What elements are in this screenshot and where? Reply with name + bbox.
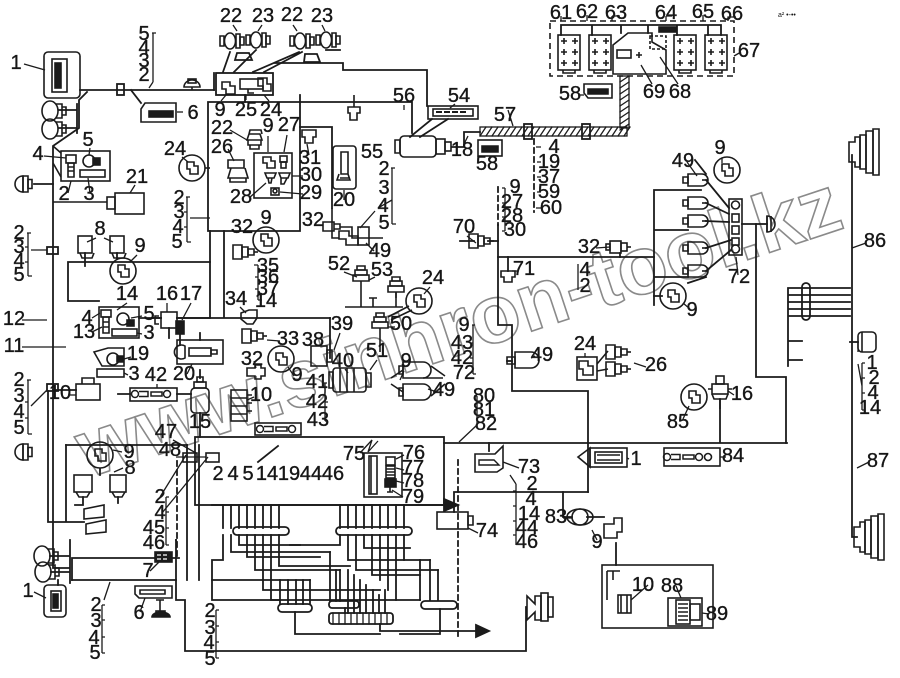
svg-text:2: 2 (579, 275, 590, 297)
fuse holder 84 (664, 448, 720, 466)
flag 7a (84, 505, 104, 519)
bracket 9-30 (502, 188, 505, 231)
plug 32a (233, 245, 258, 259)
wire y443 run (444, 399, 787, 443)
leader 5b (89, 148, 90, 155)
wire bracket lamp1 (235, 53, 252, 60)
leader 75 (360, 440, 378, 453)
wire frame top drop (214, 73, 245, 102)
horn 5b (117, 313, 129, 325)
switch 38 (311, 346, 327, 366)
bracket 4-60 ticks (536, 147, 541, 208)
wire 6 drop (131, 90, 141, 103)
svg-text:63: 63 (605, 2, 627, 24)
wire lower frame verticals (210, 231, 224, 317)
wire dashed 9-30 (497, 187, 499, 225)
wire sidelight taps (34, 104, 77, 184)
wire fusebox top bus (561, 25, 721, 35)
leader 9g (400, 371, 404, 380)
wire 56 run (300, 102, 412, 133)
leader 16a (166, 303, 168, 312)
wire 54 to 55 (410, 119, 448, 137)
leader 9j (683, 303, 690, 309)
wire lamp tap right (850, 341, 858, 343)
dashed box edge (176, 461, 178, 560)
svg-text:71: 71 (513, 258, 535, 280)
cluster part 25 (240, 79, 263, 89)
wire lamp fan (223, 50, 340, 72)
buzzer 7 (155, 552, 172, 562)
svg-text:23: 23 (311, 5, 333, 27)
svg-text:2: 2 (138, 64, 149, 86)
svg-text:42: 42 (145, 364, 167, 386)
leader 9b (267, 136, 269, 152)
leaders 9 25 24 (221, 95, 269, 101)
leader 1e (34, 592, 46, 598)
harness band horizontal (480, 76, 630, 136)
svg-text:19: 19 (127, 343, 149, 365)
leader 57 (508, 110, 513, 126)
svg-text:5: 5 (204, 648, 215, 670)
leader 9i (721, 158, 723, 163)
bolt terminal 4 (66, 155, 76, 163)
leader 31 (307, 144, 309, 155)
connector block 65 (674, 35, 696, 70)
wire ladder group2 (340, 505, 404, 528)
horn 87 (854, 514, 884, 560)
svg-text:46: 46 (143, 532, 165, 554)
svg-text:74: 74 (476, 520, 498, 542)
wire y307 (345, 298, 403, 307)
svg-text:3: 3 (143, 322, 154, 344)
switch 75 bar (369, 456, 377, 494)
svg-text:26: 26 (211, 136, 233, 158)
leader 10a (68, 394, 76, 396)
leader 21 (130, 185, 135, 193)
svg-text:79: 79 (402, 486, 424, 508)
circle 9b (253, 227, 279, 253)
wire tangle 5 (212, 560, 438, 600)
svg-text:49: 49 (672, 150, 694, 172)
bracket 2345 mid (184, 197, 210, 242)
wire regulator frame (654, 190, 701, 305)
leader 30 (292, 175, 303, 177)
bracket 2345 left (25, 233, 47, 276)
harness clamp 1 (524, 124, 532, 139)
comb connector 2 (336, 527, 412, 535)
bracket 2345 left2 (25, 380, 47, 434)
flag 7b (86, 520, 106, 534)
junction box 13 (99, 307, 139, 338)
wire ladder group1 (223, 505, 279, 528)
svg-text:27: 27 (278, 114, 300, 136)
bracket 2-46 btm (166, 497, 169, 545)
leader 56 (403, 105, 405, 110)
leader 9c (130, 255, 137, 262)
leader 6 (177, 111, 183, 113)
clamp 48 (206, 453, 219, 462)
circle 9d (268, 346, 294, 372)
wire tangle 3 (348, 535, 438, 570)
leader 17 (182, 303, 191, 320)
wire right vertical 86-87 (852, 155, 857, 537)
leader 51 (370, 360, 377, 370)
bundle clamp (802, 283, 810, 320)
wire 15 bottom (199, 413, 201, 437)
sensor 16b (712, 384, 728, 394)
svg-text:3: 3 (128, 363, 139, 385)
wire y580 run (58, 580, 176, 585)
leader 40 (345, 369, 348, 373)
leader 26 (228, 149, 234, 161)
connector e (683, 265, 708, 277)
sidelight upper (42, 101, 66, 121)
wire y266 run (68, 262, 210, 318)
marker lamp left (15, 176, 32, 192)
starter 40 (333, 368, 366, 392)
cone 33 (242, 329, 267, 343)
svg-text:21: 21 (126, 166, 148, 188)
leader 58a (578, 94, 584, 96)
connector block 61 (558, 35, 580, 70)
svg-text:51: 51 (366, 340, 388, 362)
leader 26a (634, 363, 646, 367)
instrument box (195, 437, 444, 505)
svg-text:49: 49 (433, 379, 455, 401)
wire 16a17 stub (169, 328, 180, 345)
svg-text:14: 14 (256, 463, 278, 485)
sidelight lower (42, 119, 66, 139)
fuse block 42a (130, 388, 177, 401)
cone 26b (606, 362, 631, 376)
plate lamp (527, 596, 541, 620)
dome symbol (184, 80, 200, 87)
leader 14a (117, 303, 127, 310)
elbow 9f (604, 518, 622, 538)
switch 16a (161, 312, 177, 328)
wire 10a tap (53, 389, 76, 391)
flasher 6 bottom (135, 586, 172, 598)
circle 9c (110, 258, 136, 284)
svg-text:1: 1 (10, 52, 21, 74)
bracket 2345 ctr (360, 168, 396, 228)
leader 32d (596, 247, 610, 248)
block 10b (231, 390, 247, 421)
frame left vertical (208, 95, 300, 231)
svg-text:60: 60 (540, 197, 562, 219)
leaders 22 23 (233, 25, 325, 31)
bracket 5432 (149, 33, 156, 88)
horn 86 (849, 129, 879, 175)
dashed vertical (457, 460, 459, 640)
wire bracket lamp3 (304, 54, 320, 62)
plug 50a (388, 277, 404, 298)
leader 6b (140, 598, 145, 612)
fork 30 (279, 173, 290, 184)
clamp 47 (183, 453, 197, 462)
wire 42a links (118, 393, 191, 395)
leader 74 (468, 528, 478, 533)
circle 9e (87, 442, 113, 468)
wire 70 feed (460, 240, 498, 242)
horn button (156, 600, 164, 612)
bracket 80-82 (459, 396, 477, 442)
svg-text:33: 33 (277, 328, 299, 350)
capacitor 52 (353, 266, 369, 287)
leaders 45-46 (160, 455, 208, 513)
horn symbol 5 (83, 155, 95, 167)
frame inner step (300, 127, 332, 208)
connector top right (348, 95, 360, 120)
wire tangle 6 (280, 552, 385, 613)
socket b (110, 475, 126, 492)
leader 32c (254, 361, 256, 368)
harness clamp 2 (582, 124, 590, 139)
svg-text:23: 23 (252, 5, 274, 27)
leader 24b (182, 157, 188, 162)
comb connector 5 (421, 601, 457, 609)
connector b (683, 197, 708, 209)
leader 10b (247, 397, 254, 400)
wire 34 horizontal (184, 317, 330, 319)
leader 52 (344, 272, 357, 277)
svg-text:40: 40 (332, 350, 354, 372)
svg-text:22: 22 (220, 5, 242, 27)
svg-text:6: 6 (187, 102, 198, 124)
svg-text:58: 58 (559, 83, 581, 105)
svg-text:34: 34 (225, 288, 247, 310)
svg-text:14: 14 (116, 283, 138, 305)
comb connector 3 (278, 604, 312, 612)
fuse box dashed (550, 21, 734, 76)
wire x330 drop (329, 318, 331, 358)
bar 3 (80, 170, 105, 177)
cluster part 24 (258, 78, 271, 91)
wire 9 bottom link (654, 277, 706, 296)
svg-text:87: 87 (867, 450, 889, 472)
leader 11 (22, 346, 66, 348)
switch 75 box (364, 453, 402, 497)
svg-text:5: 5 (89, 642, 100, 664)
leaders 68 69 (641, 57, 678, 84)
leader 29 (280, 192, 303, 194)
leader 83 (563, 517, 572, 519)
svg-text:66: 66 (721, 3, 743, 25)
relay 63 64 (613, 33, 666, 74)
leader 49c (531, 356, 535, 358)
svg-text:9: 9 (400, 350, 411, 372)
leader 73 (503, 462, 519, 468)
wire 55 to harness (452, 132, 480, 147)
leader 24d (424, 287, 430, 294)
svg-text:4: 4 (227, 463, 238, 485)
circle 9 top right (714, 157, 740, 183)
svg-text:75: 75 (343, 443, 365, 465)
svg-text:57: 57 (494, 104, 516, 126)
connector 49a (683, 174, 708, 186)
lamp btm a (34, 546, 58, 566)
svg-text:12: 12 (3, 308, 25, 330)
bracket 73 list (510, 475, 516, 545)
leader 77 (396, 468, 404, 470)
bar 3c (97, 369, 124, 377)
arrowhead 2 (476, 625, 489, 637)
svg-text:70: 70 (453, 216, 475, 238)
connector 31 (302, 130, 316, 143)
leader 9m 8b (113, 450, 123, 472)
svg-text:24: 24 (164, 138, 186, 160)
leader 3f (124, 373, 128, 375)
svg-text:83: 83 (545, 506, 567, 528)
comb connector 6 (329, 613, 393, 624)
svg-text:46: 46 (516, 531, 538, 553)
beam lamp 8b (110, 236, 124, 253)
fuse 76-79 (386, 457, 395, 465)
leader 79 (392, 490, 403, 497)
leader 54 (450, 104, 455, 108)
leader 28 (249, 183, 266, 198)
connector d (683, 242, 708, 254)
wire bus bottom elbow (48, 391, 84, 522)
wire lamp8 drops (85, 253, 117, 266)
lamp 1b (578, 448, 590, 467)
lamp btm b (35, 562, 59, 582)
motor 74 (437, 512, 468, 529)
wire bottom runs (295, 608, 476, 634)
leader 78 (396, 481, 404, 483)
wire y257 run (498, 256, 654, 258)
svg-text:9: 9 (262, 115, 273, 137)
svg-text:39: 39 (331, 313, 353, 335)
lamp 23b (316, 32, 340, 48)
sender 32d (610, 241, 621, 253)
headlamp 1 bottom (44, 585, 66, 617)
svg-text:a² •-••: a² •-•• (778, 12, 796, 19)
connector 70 (469, 234, 494, 248)
leader 12 (22, 319, 47, 321)
bar 64 (659, 27, 676, 32)
lamp cluster box (216, 73, 273, 95)
leader 1d (627, 458, 629, 459)
leader 5e (131, 316, 142, 318)
wire 73 stub (488, 443, 490, 451)
cone 26a (606, 345, 631, 359)
fuse block 43 (255, 423, 301, 435)
small box cluster (254, 153, 292, 198)
svg-text:1: 1 (630, 448, 641, 470)
svg-text:56: 56 (393, 85, 415, 107)
wire y492 run (454, 492, 588, 512)
coil duo (403, 362, 431, 378)
svg-text:52: 52 (328, 253, 350, 275)
svg-text:84: 84 (722, 445, 744, 467)
svg-text:5: 5 (13, 417, 24, 439)
sender 20 (333, 146, 356, 189)
svg-text:20: 20 (173, 363, 195, 385)
svg-text:30: 30 (504, 219, 526, 241)
connector 71 (501, 271, 515, 282)
wire btm lamps stubs (50, 540, 70, 583)
svg-text:10: 10 (49, 382, 71, 404)
fork 28 (265, 173, 276, 183)
svg-text:9: 9 (134, 235, 145, 257)
bracket 61-66 (561, 15, 736, 21)
wire y303 top of box13 (152, 317, 184, 319)
svg-text:86: 86 (864, 230, 886, 252)
ignition switch 20k (177, 340, 223, 364)
svg-text:5: 5 (13, 264, 24, 286)
svg-text:13: 13 (73, 321, 95, 343)
svg-text:7: 7 (142, 560, 153, 582)
leader 49a (687, 162, 697, 176)
leader 47-48 (173, 440, 206, 457)
wire to left bus (53, 92, 87, 568)
svg-text:24: 24 (422, 267, 444, 289)
leader 89 (702, 613, 709, 614)
wire 7 drop (175, 539, 177, 541)
svg-text:5: 5 (171, 231, 182, 253)
svg-text:49: 49 (531, 344, 553, 366)
bracket 4-2 (577, 264, 579, 290)
leader 10c (631, 585, 648, 600)
svg-text:5: 5 (378, 212, 389, 234)
wire bundle lines (788, 288, 850, 366)
horn 88-89 (668, 598, 702, 626)
bracket 2345 br (216, 610, 219, 658)
elbow 49b (339, 231, 358, 245)
leader 13 (92, 327, 102, 332)
svg-text:46: 46 (322, 463, 344, 485)
flag 73 (475, 446, 503, 472)
plug 17 (176, 321, 184, 334)
marker lamp left 3 (15, 444, 32, 460)
lamp right mid (858, 332, 876, 352)
leader 39 (334, 333, 340, 350)
svg-text:9: 9 (686, 299, 697, 321)
wire bottom left frame (176, 540, 526, 651)
wire y445 run (66, 444, 187, 446)
junction box left (61, 151, 110, 181)
svg-text:9: 9 (714, 137, 725, 159)
washer pump 54 (428, 106, 478, 119)
coil 15 (191, 388, 209, 413)
plug 32e (247, 365, 265, 379)
wire headlamp1 feed (80, 89, 214, 91)
plug 27 (280, 156, 287, 162)
bracket 2345 bl (102, 582, 110, 653)
svg-text:5: 5 (82, 129, 93, 151)
leader 22c (230, 130, 247, 140)
wire cluster right run (275, 63, 427, 106)
leader 4c (44, 156, 66, 158)
sender 26 (228, 160, 248, 182)
circle 24a (179, 155, 205, 181)
leader 7 (150, 562, 159, 571)
lamp 22b (290, 33, 314, 49)
bracket 35-14 (254, 265, 262, 300)
relay 10c (618, 595, 631, 613)
leader 2b (68, 181, 71, 193)
wire box inner verticals (187, 445, 199, 580)
svg-text:44: 44 (300, 463, 322, 485)
leader 76 (396, 455, 404, 459)
leader 4f (92, 313, 100, 318)
cluster part 9 (222, 82, 235, 94)
bolt 13 (101, 310, 111, 317)
relay 21 (115, 193, 144, 214)
lamp 23a (246, 32, 270, 48)
bracket 41-43 (324, 383, 328, 421)
